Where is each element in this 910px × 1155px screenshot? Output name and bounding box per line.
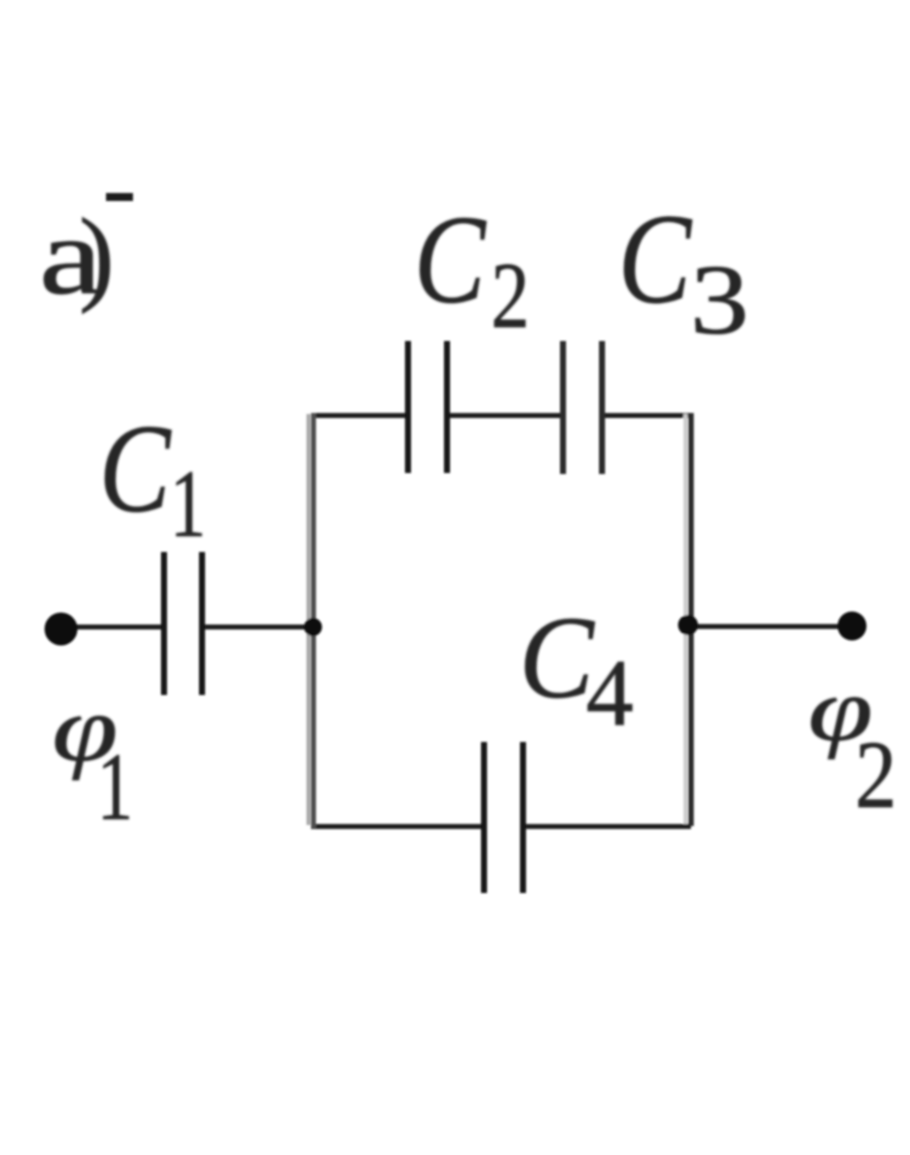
svg-text:4: 4 bbox=[586, 640, 634, 746]
svg-text:2: 2 bbox=[855, 723, 897, 829]
svg-text:2: 2 bbox=[491, 243, 530, 348]
svg-text:3: 3 bbox=[690, 244, 749, 355]
svg-text:C: C bbox=[519, 591, 595, 722]
svg-text:1: 1 bbox=[97, 734, 133, 840]
svg-text:): ) bbox=[79, 197, 114, 314]
svg-text:1: 1 bbox=[170, 451, 206, 557]
svg-text:C: C bbox=[99, 400, 172, 539]
svg-text:C: C bbox=[414, 191, 487, 330]
svg-text:C: C bbox=[618, 187, 692, 330]
